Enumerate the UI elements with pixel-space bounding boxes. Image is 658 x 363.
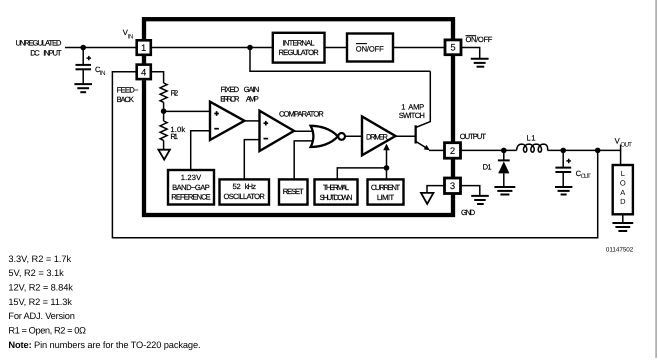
wire divider to error amp — [164, 110, 210, 112]
svg-text:LIMIT: LIMIT — [377, 193, 395, 202]
svg-text:12V, R2 = 8.84k: 12V, R2 = 8.84k — [8, 283, 73, 293]
ground for COUT — [555, 186, 572, 188]
wire comparator out to gate — [294, 130, 314, 132]
resistor R2 — [160, 83, 167, 102]
svg-text:R1 = Open, R2 = 0Ω: R1 = Open, R2 = 0Ω — [8, 326, 86, 336]
svg-text:THERMAL: THERMAL — [323, 183, 349, 192]
wire load to ground — [622, 214, 624, 222]
svg-text:01147502: 01147502 — [606, 246, 634, 253]
box reset — [279, 179, 308, 204]
wire pin 4 to R2 — [151, 72, 164, 83]
wire driver to switch base — [396, 135, 416, 137]
capacitor CIN — [82, 48, 84, 65]
pin 5 — [445, 40, 461, 55]
pin 4 — [137, 65, 151, 80]
svg-text:COMPARATOR: COMPARATOR — [279, 110, 324, 119]
svg-text:CURRENT: CURRENT — [371, 183, 401, 192]
svg-text:Note: Pin numbers are for the: Note: Pin numbers are for the TO-220 pac… — [8, 340, 200, 350]
ground arrow for R1 — [158, 150, 170, 160]
box internal regulator — [273, 33, 325, 63]
svg-text:1: 1 — [141, 43, 146, 54]
wire thermal-current to driver — [337, 168, 386, 180]
svg-text:ON/OFF: ON/OFF — [356, 45, 384, 54]
node thermal-current junction — [384, 165, 390, 171]
diode D1 — [503, 150, 505, 160]
svg-text:OUT: OUT — [581, 173, 591, 180]
nor gate — [311, 126, 338, 147]
node input/CIN junction — [80, 45, 86, 51]
node divider junction — [161, 108, 167, 114]
wire feedback loop — [112, 72, 597, 238]
wire emitter to pin 2 — [429, 149, 445, 151]
svg-text:UNREGULATED: UNREGULATED — [16, 38, 63, 47]
node diode junction — [501, 148, 507, 154]
svg-text:3.3V, R2 = 1.7k: 3.3V, R2 = 1.7k — [8, 254, 71, 264]
inductor L1 — [517, 144, 548, 152]
box thermal shutdown — [315, 179, 358, 204]
svg-text:For ADJ. Version: For ADJ. Version — [8, 311, 75, 321]
svg-text:IN: IN — [100, 70, 106, 77]
wire gate to driver — [345, 135, 362, 137]
box current limit — [368, 179, 404, 204]
svg-text:3: 3 — [450, 181, 455, 192]
wire reset to gate — [294, 141, 314, 180]
svg-text:L: L — [621, 169, 625, 178]
transistor Q1 switch — [415, 125, 417, 143]
svg-text:DRIVER: DRIVER — [366, 132, 389, 141]
svg-text:A: A — [620, 188, 625, 197]
box 1.23V band-gap reference — [168, 170, 214, 205]
svg-text:OUT: OUT — [620, 141, 632, 148]
svg-text:D1: D1 — [483, 163, 492, 172]
driver — [362, 117, 396, 156]
svg-text:D: D — [620, 197, 626, 206]
wire internal regulator to on/off box — [325, 47, 348, 49]
wire current limit to junction — [386, 168, 388, 180]
op-amp error amp — [210, 102, 244, 140]
svg-text:FEED−: FEED− — [117, 86, 139, 95]
svg-text:INPUT: INPUT — [43, 48, 62, 57]
svg-text:IN: IN — [128, 34, 134, 41]
svg-text:GAIN: GAIN — [244, 85, 260, 94]
svg-text:5V, R2 = 3.1k: 5V, R2 = 3.1k — [8, 268, 64, 278]
svg-text:OUTPUT: OUTPUT — [460, 132, 487, 141]
ground for D1 — [494, 186, 515, 188]
wire L1 to Cout node — [548, 149, 598, 151]
load box — [613, 165, 633, 214]
wire error amp out to comparator — [244, 120, 259, 122]
box on/off — [347, 34, 393, 62]
wire comparator minus to oscillator — [244, 140, 259, 180]
svg-text:1: 1 — [401, 102, 405, 111]
node VIN branch — [247, 45, 253, 51]
comparator — [260, 111, 295, 151]
resistor R1 — [163, 111, 165, 121]
wire VIN rail pin1 to internal regulator — [151, 47, 273, 49]
svg-text:BAND−GAP: BAND−GAP — [172, 183, 210, 192]
svg-text:2: 2 — [450, 146, 455, 157]
svg-text:1.23V: 1.23V — [181, 173, 202, 182]
svg-text:RESET: RESET — [283, 187, 304, 196]
svg-text:15V, R2 = 11.3k: 15V, R2 = 11.3k — [8, 297, 72, 307]
svg-text:REFERENCE: REFERENCE — [171, 193, 210, 202]
svg-text:REGULATOR: REGULATOR — [279, 48, 320, 57]
svg-text:L1: L1 — [527, 133, 536, 142]
svg-text:4: 4 — [141, 67, 146, 78]
svg-text:SWITCH: SWITCH — [399, 111, 425, 120]
pin 2 — [445, 143, 461, 159]
svg-text:DC: DC — [30, 48, 40, 57]
box 52 kHz oscillator — [220, 179, 270, 204]
svg-text:AMP: AMP — [246, 94, 259, 103]
svg-text:5: 5 — [450, 43, 455, 54]
svg-text:52: 52 — [233, 182, 241, 191]
wire pin 3 to GND — [461, 186, 480, 196]
svg-text:ERROR: ERROR — [220, 94, 240, 103]
page edge line — [655, 0, 657, 358]
node Cout junction — [560, 148, 566, 154]
svg-text:R1: R1 — [170, 132, 178, 141]
pin 3 — [445, 178, 461, 194]
svg-text:BACK: BACK — [117, 95, 134, 104]
svg-text:O: O — [620, 178, 626, 187]
ground for CIN — [74, 83, 92, 85]
wire input to pin 1 — [65, 47, 137, 49]
svg-text:GND: GND — [461, 208, 476, 217]
ground arrow internal — [421, 193, 433, 204]
svg-text:FIXED: FIXED — [221, 85, 240, 94]
wire output to load — [598, 150, 621, 165]
node feedback junction — [595, 148, 601, 154]
capacitor COUT — [562, 150, 564, 167]
ground for load — [612, 222, 633, 224]
svg-text:SHUTDOWN: SHUTDOWN — [320, 193, 353, 202]
ground for pin 5 — [471, 58, 489, 60]
wire VIN branch to switch collector — [250, 48, 430, 72]
svg-text:OSCILLATOR: OSCILLATOR — [224, 192, 266, 201]
svg-text:AMP: AMP — [408, 102, 424, 111]
svg-text:R2: R2 — [171, 89, 179, 98]
svg-text:INTERNAL: INTERNAL — [283, 38, 315, 47]
svg-text:kHz: kHz — [245, 182, 257, 191]
wire pin 5 to ground — [461, 48, 480, 59]
wire on/off box to pin 5 — [393, 47, 445, 49]
ground for pin 3 — [471, 195, 489, 197]
regulator IC boundary — [144, 19, 453, 215]
wire pin 2 to output node — [461, 149, 517, 151]
pin 1 — [137, 40, 151, 55]
wire pin 3 to internal ground — [427, 186, 445, 193]
wire error amp minus to bandgap — [191, 131, 210, 170]
